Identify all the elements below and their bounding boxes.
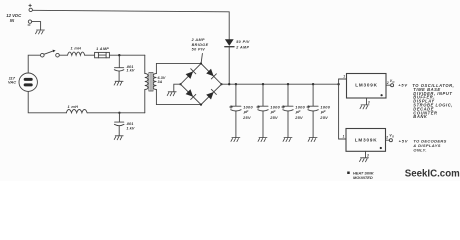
svg-text:25V: 25V [269,115,278,120]
svg-text:1 mH: 1 mH [68,105,79,109]
svg-text:25V: 25V [294,115,303,120]
svg-text:2 AMP: 2 AMP [235,45,249,49]
svg-text:12 VDC: 12 VDC [6,13,22,18]
svg-text:μF: μF [295,109,301,114]
svg-text:BANK: BANK [413,114,428,119]
svg-text:2: 2 [385,136,388,140]
svg-text:2 AMP: 2 AMP [191,38,205,42]
svg-text:50 PIV: 50 PIV [192,48,206,52]
svg-text:SeekIC.com: SeekIC.com [405,168,460,179]
svg-text:ONLY.: ONLY. [413,147,426,152]
svg-text:1 AMP: 1 AMP [96,47,109,51]
svg-text:O: O [392,135,394,139]
svg-text:1 kV: 1 kV [126,125,134,130]
svg-text:μF: μF [243,109,249,114]
svg-text:1: 1 [343,135,345,139]
svg-text:μF: μF [320,109,326,114]
svg-text:MOUNTED: MOUNTED [353,175,373,180]
svg-text:3: 3 [367,153,369,157]
svg-text:3: 3 [368,100,370,104]
svg-text:50 PIV: 50 PIV [236,40,250,44]
svg-text:3A: 3A [158,80,163,84]
svg-text:LM309K: LM309K [355,83,378,88]
svg-text:1: 1 [343,75,345,79]
svg-text:25V: 25V [242,115,251,120]
svg-text:+5V: +5V [399,138,409,143]
svg-text:μF: μF [270,109,276,114]
svg-text:VAC: VAC [8,79,16,84]
svg-text:25V: 25V [319,115,328,120]
svg-text:IN: IN [10,18,15,23]
svg-text:1 mH: 1 mH [71,46,82,50]
svg-text:1 kV: 1 kV [126,68,134,73]
svg-text:2: 2 [386,81,389,85]
svg-text:LM309K: LM309K [355,137,378,142]
svg-text:O: O [392,80,394,84]
svg-text:BRIDGE: BRIDGE [192,43,209,47]
svg-text:+5V: +5V [398,83,408,88]
